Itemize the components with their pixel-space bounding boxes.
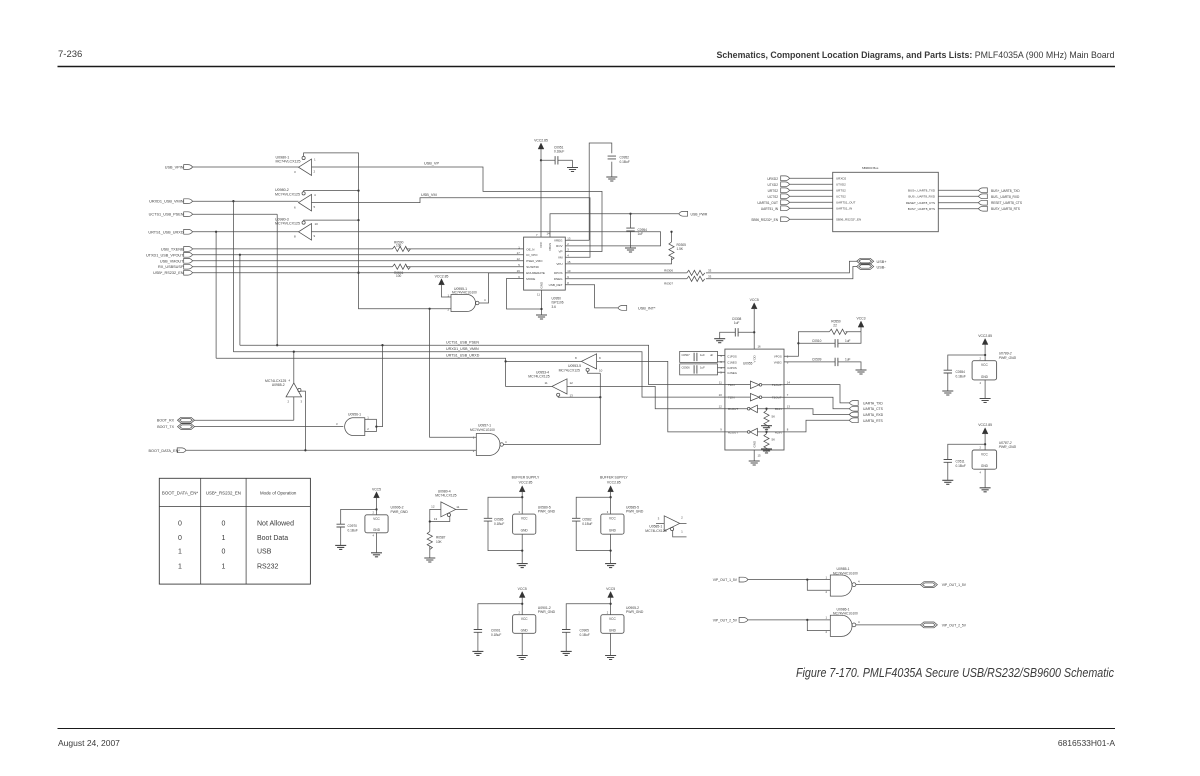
junction C0954	[629, 213, 631, 215]
svg-text:0: 0	[221, 549, 225, 556]
wire U0950 GND / MODE	[507, 279, 542, 316]
svg-text:GND: GND	[521, 529, 529, 533]
svg-text:14: 14	[787, 380, 791, 384]
svg-text:Schematics, Component Location: Schematics, Component Location Diagrams,…	[717, 50, 1115, 60]
svg-text:UCTS2: UCTS2	[768, 195, 779, 199]
svg-text:VBUS: VBUS	[548, 243, 552, 251]
wire U0980-3 input to U0950 RCV	[312, 232, 661, 246]
nand U0985-1	[825, 567, 860, 596]
svg-text:URXD2: URXD2	[767, 177, 778, 181]
svg-text:UART51_OUT: UART51_OUT	[757, 201, 778, 205]
wire U0953-5 enable	[588, 371, 601, 373]
junction R0305 top	[670, 231, 672, 233]
node SB96_RS232*_EN	[751, 217, 832, 222]
svg-text:16: 16	[758, 345, 762, 349]
power VCC5 (U0955 supply)	[750, 298, 759, 309]
svg-text:IO_VPO: IO_VPO	[526, 253, 538, 257]
svg-text:VCC2.85: VCC2.85	[607, 480, 621, 484]
resistor R2 5K pulldown	[761, 431, 775, 453]
wire U0985-1 output	[856, 584, 920, 586]
ground (U0580-5)	[517, 564, 528, 568]
svg-text:33: 33	[708, 268, 712, 272]
svg-text:UART51_IN: UART51_IN	[761, 207, 779, 211]
power VCC2.85 (U0789-2)	[978, 334, 992, 345]
capacitor C0970	[337, 509, 377, 545]
svg-text:RS232: RS232	[257, 564, 279, 571]
svg-text:SB96_RS232*_EN: SB96_RS232*_EN	[836, 218, 861, 222]
power VCC2.85 (U0950 supply)	[534, 139, 548, 150]
wire VBUS to USB_PWR	[550, 214, 679, 237]
resistor R0500	[393, 240, 411, 251]
svg-text:1.5K: 1.5K	[677, 247, 684, 251]
capacitor C0554	[944, 355, 986, 391]
buffer U0980-1	[276, 155, 317, 175]
ground (C0905)	[561, 651, 572, 655]
svg-text:BUS+_UART8_TXD: BUS+_UART8_TXD	[991, 189, 1020, 193]
svg-text:MC74VHC1G100: MC74VHC1G100	[452, 291, 477, 295]
node RESET_UART8_CTS	[938, 200, 1022, 205]
wire UCTS1_USB_PSEN line	[193, 213, 278, 215]
wire net URXD1_USB_VMIN (mid)	[233, 352, 725, 397]
svg-text:1: 1	[221, 535, 225, 542]
wire U0953-4 enable	[558, 396, 601, 398]
IC U0901-2 PWR_GND	[513, 606, 556, 633]
node BUSY_UART8_RTS	[938, 206, 1020, 211]
svg-text:MC74LCX125: MC74LCX125	[559, 368, 580, 372]
junction VCC/C0951	[540, 159, 542, 161]
wire column vertical VMIN	[232, 201, 234, 352]
and gate U0956-1	[336, 413, 376, 436]
buffer U0980-3	[275, 217, 318, 240]
svg-text:1: 1	[178, 549, 182, 556]
wire VCC5 to U0901-2	[521, 598, 523, 615]
wire VCC2.85 to U0580-5	[521, 492, 523, 514]
svg-text:USB_TXENB: USB_TXENB	[161, 247, 184, 251]
ground (C0954)	[625, 248, 636, 252]
power VCC5 (U0906-2)	[372, 487, 381, 498]
node UCTS1_USB_PSEN	[149, 212, 193, 217]
svg-text:0.1BuF: 0.1BuF	[348, 529, 358, 533]
wire column vertical PSEN	[276, 214, 278, 345]
ground (U0787-2)	[980, 488, 991, 492]
svg-text:3.6: 3.6	[552, 305, 557, 309]
node RX_USBSUSP	[158, 264, 193, 269]
wire VCC2.85 to U0950 VCC pin	[540, 149, 542, 237]
svg-text:0.1BuF: 0.1BuF	[956, 375, 966, 379]
svg-text:11: 11	[537, 293, 540, 297]
ground (C0554)	[942, 391, 953, 395]
svg-text:R2OUT: R2OUT	[728, 430, 738, 434]
wire USB_TXENB to R0500	[193, 248, 524, 250]
svg-text:URXD2: URXD2	[836, 177, 847, 181]
svg-text:UARTA_RXD: UARTA_RXD	[863, 413, 884, 417]
svg-text:BUS-_UART8_RXD: BUS-_UART8_RXD	[908, 195, 935, 199]
svg-text:12: 12	[517, 257, 521, 261]
wire U0955 GND pin	[753, 450, 755, 461]
svg-text:VCC: VCC	[373, 517, 380, 521]
svg-text:T2IN: T2IN	[728, 396, 735, 400]
node VIP_OUT_1_5V (input)	[713, 577, 748, 582]
svg-text:BUSY_UART8_RTS: BUSY_UART8_RTS	[908, 207, 935, 211]
wire U0985-2 top to VMIN net	[293, 351, 295, 383]
buffer U0953-4	[528, 370, 573, 397]
svg-text:C1NEG: C1NEG	[727, 360, 737, 364]
footer date	[58, 738, 120, 748]
svg-text:VCC: VCC	[981, 453, 988, 457]
svg-text:15: 15	[567, 260, 571, 264]
wire VPU	[565, 258, 671, 264]
junction NAND branch	[428, 308, 430, 310]
svg-text:VIP_OUT_1_5V: VIP_OUT_1_5V	[713, 578, 738, 582]
svg-text:URTS2: URTS2	[836, 189, 846, 193]
svg-text:0.1BuF: 0.1BuF	[491, 633, 501, 637]
wire VCC2.85 to U0955-1 pin1	[442, 285, 452, 297]
svg-text:USB-: USB-	[877, 265, 887, 269]
IC U0906-2 PWR_GND	[365, 506, 408, 538]
svg-text:VCC2.85: VCC2.85	[978, 423, 992, 427]
node UCTS2	[768, 194, 833, 199]
svg-text:PWR_GND: PWR_GND	[999, 356, 1017, 360]
power VCC3	[846, 317, 866, 332]
wire T2OUT to UARTA_CTS	[784, 397, 849, 409]
svg-text:DNEG: DNEG	[554, 277, 563, 281]
page header rule	[58, 66, 1116, 68]
junction column VPOUT	[239, 254, 241, 256]
svg-text:17: 17	[517, 251, 521, 255]
svg-text:VCC2.85: VCC2.85	[534, 139, 548, 143]
capacitor C0510	[798, 332, 861, 348]
svg-text:VCC2.85: VCC2.85	[519, 480, 533, 484]
svg-text:Mode of Operation: Mode of Operation	[260, 491, 297, 496]
svg-text:V DD: V DD	[752, 354, 756, 362]
svg-text:10K: 10K	[436, 540, 443, 544]
wire USB_VPIN to U0980-1 output	[193, 166, 299, 168]
svg-text:URXD1_USB_VMIN: URXD1_USB_VMIN	[446, 347, 479, 351]
IC U0950 USB transceiver	[517, 232, 571, 309]
svg-text:BOOT_DATA_EN*: BOOT_DATA_EN*	[149, 449, 181, 453]
wire U0957-1 output to buffer enables	[503, 373, 600, 444]
wire T1OUT to UARTA_TXD	[784, 385, 849, 403]
junction C0510	[797, 342, 799, 344]
wire U0980-4 output stub	[456, 508, 468, 510]
svg-text:VNEG: VNEG	[774, 360, 782, 364]
svg-text:BOOT_RX: BOOT_RX	[157, 419, 175, 423]
node USB_TXENB	[161, 247, 193, 252]
svg-text:GND: GND	[609, 628, 617, 632]
ground (U0905-2)	[605, 656, 616, 660]
svg-text:R0306: R0306	[664, 268, 673, 272]
svg-text:USB_DET: USB_DET	[549, 283, 563, 287]
node URXD2	[767, 176, 833, 181]
wire DNEG to USB-	[565, 267, 856, 279]
wire U0957-1 input1	[430, 309, 477, 438]
node BOOT_RX	[157, 417, 195, 423]
svg-text:13: 13	[787, 405, 791, 409]
wire VCC5 to U0905-2	[609, 598, 611, 615]
nand U0955-1	[448, 287, 487, 312]
capacitor C0901	[474, 604, 523, 652]
node UARTA_RXD	[849, 412, 883, 417]
figure caption	[796, 665, 1114, 680]
wire USB_DET to USB_INT*	[565, 285, 618, 308]
node URTS1_USB_URXD	[148, 229, 192, 234]
wire DPOS to USB+	[565, 261, 856, 273]
svg-text:22: 22	[833, 324, 837, 328]
svg-text:15: 15	[758, 454, 762, 458]
label net USB_VP	[424, 162, 439, 166]
resistor R0550 22	[829, 319, 847, 334]
page number 7-236	[58, 49, 82, 60]
node UARTA_TXD	[849, 401, 883, 406]
svg-text:VCC5: VCC5	[372, 487, 381, 491]
wire U0585-1 pins	[656, 523, 687, 537]
wire RX_USBSUSP to R0501	[193, 266, 524, 268]
svg-text:UARTA_RTS: UARTA_RTS	[863, 419, 884, 423]
svg-text:1: 1	[221, 564, 225, 571]
svg-text:14: 14	[547, 232, 551, 236]
svg-text:10: 10	[567, 269, 571, 273]
wire VCC2.85 to U0787-2	[984, 434, 986, 450]
svg-text:UTXD1_USB_VPOUT: UTXD1_USB_VPOUT	[146, 253, 184, 257]
svg-text:MC74VHC1G100: MC74VHC1G100	[833, 612, 858, 616]
svg-text:33: 33	[708, 275, 712, 279]
ground (C0951)	[567, 160, 578, 171]
capacitor C0952	[608, 156, 630, 177]
svg-text:12: 12	[719, 405, 723, 409]
nand U0957-1	[470, 424, 507, 456]
truth table	[159, 478, 310, 584]
ground (C0952)	[606, 177, 617, 181]
resistor R0501	[393, 264, 411, 278]
inverter U0985-2	[265, 379, 303, 404]
svg-text:MC74VLCX125: MC74VLCX125	[275, 193, 300, 197]
svg-text:MC74VLCX125: MC74VLCX125	[276, 160, 301, 164]
node BOOT_DATA_EN*	[149, 448, 187, 453]
power VCC2.85 (NAND U0955-1)	[435, 274, 449, 285]
svg-text:T1IN: T1IN	[728, 383, 735, 387]
node BUS-_UART8_RXD	[938, 194, 1020, 199]
svg-text:USB_PWR: USB_PWR	[691, 212, 708, 216]
svg-text:GND: GND	[752, 440, 756, 448]
svg-text:VCC5: VCC5	[518, 587, 527, 591]
junction MODE-GND	[540, 308, 542, 310]
label URXD1_USB_VMIN	[446, 347, 479, 351]
svg-text:R0587: R0587	[436, 536, 446, 540]
wire URXD1_USB_VMIN line	[193, 200, 299, 202]
node USB_INT*	[618, 306, 656, 311]
wire VREG rail	[565, 143, 612, 240]
svg-text:PWR_GND: PWR_GND	[391, 510, 409, 514]
svg-text:URTS1_USB_URXD: URTS1_USB_URXD	[446, 354, 480, 358]
svg-text:5K: 5K	[772, 415, 776, 419]
resistor R0587 10K	[427, 532, 445, 559]
ground (C0970)	[335, 545, 346, 549]
svg-text:VCC: VCC	[609, 517, 616, 521]
svg-text:BUSY_UART8_RTS: BUSY_UART8_RTS	[991, 207, 1020, 211]
wire VCC2.85 to U0789-2	[984, 345, 986, 361]
wire U0986-1 output	[856, 624, 920, 626]
svg-text:U0789-2: U0789-2	[999, 352, 1012, 356]
wire U0956-1 output to BOOT_TX	[195, 426, 344, 428]
svg-text:USB_VPIN: USB_VPIN	[165, 166, 184, 170]
svg-text:SUSPND: SUSPND	[526, 265, 539, 269]
power VCC5 (U0901-2)	[518, 587, 527, 598]
receiver R2 (inside U0955)	[725, 428, 784, 435]
svg-text:R1OUT: R1OUT	[728, 407, 738, 411]
wire net URTS1_USB_URXD (mid)	[216, 358, 552, 386]
label URTS1_USB_URXD	[446, 354, 480, 358]
wire U0901-2 GND	[521, 633, 523, 655]
svg-text:11: 11	[719, 380, 722, 384]
wire VCC5 to U0906-2	[375, 497, 377, 514]
IC U0789-2 PWR_GND	[972, 352, 1016, 386]
svg-text:C2NEG: C2NEG	[727, 371, 737, 375]
svg-text:UTXD2: UTXD2	[836, 183, 846, 187]
svg-text:BUFFER SUPPLY: BUFFER SUPPLY	[600, 476, 628, 480]
wire VIP_OUT_1 input	[748, 578, 830, 590]
wire U0585-5 GND	[609, 534, 611, 563]
capacitor C0585	[484, 497, 522, 550]
wire VPOS rail	[784, 332, 829, 357]
ground (U0585-5)	[605, 564, 616, 568]
ground (C0308)	[714, 339, 725, 343]
svg-text:USB+: USB+	[877, 260, 888, 264]
wire VIP_OUT_2 input	[748, 619, 830, 631]
svg-text:12: 12	[570, 381, 574, 385]
node USB*_RS232_EN	[153, 270, 192, 275]
svg-text:13: 13	[434, 517, 438, 521]
resistor R1 5K pulldown	[761, 408, 775, 430]
svg-text:VREG: VREG	[554, 238, 563, 242]
svg-text:0.1BuF: 0.1BuF	[554, 149, 564, 153]
svg-text:RCV: RCV	[556, 244, 562, 248]
power VCC2.85 (U0580-5)	[519, 486, 525, 492]
svg-text:VCC2.85: VCC2.85	[435, 274, 449, 278]
svg-text:1uF: 1uF	[700, 353, 705, 357]
svg-text:C0905: C0905	[580, 629, 590, 633]
junction column VMIN	[232, 200, 234, 202]
ground (C0901)	[472, 651, 483, 655]
svg-text:August 24, 2007: August 24, 2007	[58, 738, 120, 748]
svg-text:RX_USBSUSP: RX_USBSUSP	[158, 265, 184, 269]
svg-text:12: 12	[431, 505, 435, 509]
node UTXD1_USB_VPOUT	[146, 252, 193, 257]
svg-text:MC74LCX125: MC74LCX125	[645, 529, 666, 533]
node UARTA_CTS	[849, 406, 883, 411]
capacitor C0511	[944, 444, 986, 480]
wire R2IN to UARTA_RTS	[784, 420, 849, 432]
wire net UCTS1_USB_PSEN (mid)	[240, 345, 725, 384]
wire UTXD1_USB_VPOUT line	[193, 254, 524, 256]
wire U0956-1 input branch to PSEN net	[375, 344, 383, 428]
svg-text:RESET_UART8_CTS: RESET_UART8_CTS	[991, 201, 1022, 205]
IC U0787-2 PWR_GND	[972, 441, 1016, 475]
svg-text:C0585: C0585	[494, 518, 504, 522]
svg-text:USB: USB	[257, 549, 272, 556]
IC SB9600 interface block	[833, 166, 939, 232]
svg-text:C0509: C0509	[812, 357, 822, 361]
svg-text:GND: GND	[981, 375, 989, 379]
wire BOOT_RX to U0985-2 input	[195, 397, 294, 420]
wire U0906-2 GND	[376, 533, 378, 553]
svg-text:VCC5: VCC5	[750, 298, 759, 302]
svg-text:0.1BuF: 0.1BuF	[582, 522, 592, 526]
svg-text:VIP_OUT_2_5V: VIP_OUT_2_5V	[942, 623, 967, 627]
wire U0789-2 GND	[984, 380, 986, 399]
svg-text:7-236: 7-236	[58, 49, 82, 60]
svg-text:MC74VHC1G100: MC74VHC1G100	[470, 428, 495, 432]
svg-text:PWR_GND: PWR_GND	[626, 610, 644, 614]
svg-text:VM: VM	[558, 255, 563, 259]
wire USB*_RS232_EN line	[193, 272, 524, 274]
svg-text:RESET_UART8_CTS: RESET_UART8_CTS	[906, 201, 935, 205]
svg-text:VIP_OUT_2_5V: VIP_OUT_2_5V	[713, 618, 738, 622]
header title	[717, 50, 1115, 60]
svg-text:UTXD2: UTXD2	[768, 183, 779, 187]
svg-text:0: 0	[178, 535, 182, 542]
node USB_PWR	[679, 211, 708, 216]
svg-text:MC74VHC1G100: MC74VHC1G100	[833, 571, 858, 575]
capacitor C0308	[720, 317, 755, 339]
svg-text:VCC5: VCC5	[606, 587, 615, 591]
node VIP_OUT_1_5V (output)	[920, 582, 966, 588]
ground (U0955)	[749, 461, 760, 465]
wire U0905-2 GND	[610, 633, 612, 655]
node URXD1_USB_VMIN	[149, 199, 192, 204]
svg-text:BOOT_TX: BOOT_TX	[157, 425, 174, 429]
label UCTS1_USB_PSEN	[446, 341, 479, 345]
node USB_VPIN	[165, 165, 193, 170]
svg-text:1: 1	[178, 564, 182, 571]
buffer U0953-5	[559, 354, 603, 373]
wire URTS1_USB_URXD to U0980-3	[193, 231, 299, 233]
svg-text:R0307: R0307	[664, 282, 673, 286]
svg-text:VCC: VCC	[521, 517, 528, 521]
svg-text:UCTS1_USB_PSEN: UCTS1_USB_PSEN	[149, 213, 184, 217]
wire VCC2.85 to U0585-5	[609, 492, 611, 514]
svg-text:C0511: C0511	[956, 459, 965, 463]
svg-text:SB96_RS232*_EN: SB96_RS232*_EN	[751, 218, 778, 222]
svg-text:GND: GND	[609, 529, 617, 533]
svg-text:VP: VP	[558, 250, 562, 254]
buffer supply 2 label	[600, 476, 628, 485]
wire U0985-2 output to BOOT line	[301, 391, 307, 451]
svg-text:C0901: C0901	[491, 629, 501, 633]
svg-text:PWR_GND: PWR_GND	[538, 610, 556, 614]
wire U0957-1 input2 from BOOT_DATA_EN*	[186, 449, 476, 451]
junction PSEN join	[276, 344, 278, 346]
node USB_VMOUT	[160, 258, 193, 263]
wire USB_VMOUT line	[193, 260, 524, 262]
wire column vertical URXD	[215, 232, 217, 358]
junction enable inv3	[357, 219, 359, 221]
resistor R0307 33	[664, 275, 712, 286]
svg-text:10: 10	[599, 369, 603, 373]
buffer supply 1 label	[512, 476, 540, 485]
svg-text:11: 11	[456, 505, 459, 509]
svg-text:Figure 7-170. PMLF4035A Secure: Figure 7-170. PMLF4035A Secure USB/RS232…	[796, 665, 1114, 680]
svg-text:BUS+_UART8_TXD: BUS+_UART8_TXD	[908, 189, 936, 193]
svg-text:URTS1_USB_URXD: URTS1_USB_URXD	[148, 230, 183, 234]
resistor R0305 1.5K	[669, 232, 686, 260]
svg-text:R2IN: R2IN	[775, 430, 782, 434]
wire U0580-5 GND	[521, 534, 523, 563]
svg-text:USB*_RS232_EN: USB*_RS232_EN	[206, 491, 241, 496]
svg-text:1uF: 1uF	[638, 232, 644, 236]
wire buffer enables vertical	[304, 153, 451, 309]
node UTXD2	[768, 182, 833, 187]
wire U0980-4 input/enable tie	[429, 509, 450, 531]
